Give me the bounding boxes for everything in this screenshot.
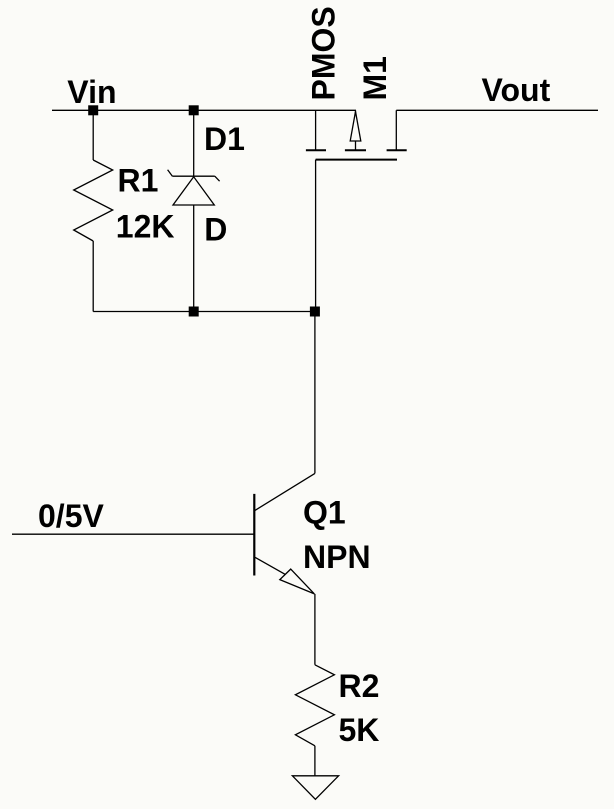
wire: gate lead down to junction: [315, 160, 317, 312]
wire: Vout rail: [396, 109, 598, 111]
svg-text:5K: 5K: [339, 712, 380, 748]
svg-text:NPN: NPN: [303, 539, 371, 575]
wire: R1 bottom to lower rail: [92, 241, 94, 312]
wire: lower rail: [93, 311, 315, 313]
wire: Vin top rail: [52, 109, 356, 111]
wire: junction down to Q1 collector: [314, 312, 316, 474]
ground: [292, 776, 338, 800]
svg-text:M1: M1: [357, 56, 393, 100]
svg-text:D1: D1: [204, 121, 245, 157]
wire: R2 to ground: [314, 746, 316, 776]
wire: D1 node down to diode: [193, 110, 195, 176]
node: junction D1 bottom: [189, 307, 199, 317]
svg-text:12K: 12K: [116, 208, 175, 244]
wire: 0/5V input to Q1 base: [12, 533, 254, 535]
svg-text:PMOS: PMOS: [306, 6, 342, 100]
node: junction at D1 top: [189, 105, 199, 115]
resistor R1: [74, 160, 113, 241]
transistor M1 (PMOS): source lead: [315, 110, 317, 150]
M1 source bar: [306, 149, 326, 151]
node: junction gate / collector: [310, 307, 320, 317]
svg-text:R2: R2: [339, 668, 380, 704]
M1 bulk arrow: [350, 112, 361, 142]
svg-text:R1: R1: [118, 163, 159, 199]
M1 drain lead: [395, 110, 397, 150]
M1 drain bar: [387, 149, 407, 151]
wire: Vin node down to R1: [92, 110, 94, 160]
svg-text:Vin: Vin: [67, 74, 116, 110]
M1 bulk bar: [345, 149, 366, 151]
M1 gate line: [316, 159, 397, 161]
Q1 emitter arrowhead: [280, 569, 315, 594]
resistor R2: [295, 665, 334, 746]
transistor Q1: collector diagonal: [255, 473, 315, 510]
Q1 emitter diagonal: [255, 557, 285, 574]
diode D1 (zener): [168, 170, 220, 205]
svg-text:D: D: [204, 212, 227, 248]
node: junction at Vin / R1 top: [88, 105, 98, 115]
svg-text:Vout: Vout: [482, 72, 551, 108]
Q1 base bar: [253, 494, 255, 576]
wire: emitter down to R2: [314, 594, 316, 665]
wire: D1 bottom to lower rail: [193, 205, 195, 312]
M1 bulk stub from rail: [355, 110, 357, 113]
svg-text:0/5V: 0/5V: [38, 498, 104, 534]
M1 bulk stem: [355, 141, 357, 150]
svg-text:Q1: Q1: [303, 495, 346, 531]
